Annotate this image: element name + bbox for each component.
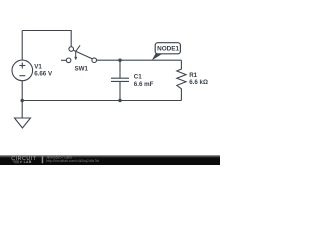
- svg-text:http://circuitlab.com/c4k2sq2u: http://circuitlab.com/c4k2sq2u5s7bt: [46, 159, 99, 163]
- svg-text:6.6 mF: 6.6 mF: [134, 81, 154, 88]
- wire: V1 top lead up left rail: [21, 31, 23, 61]
- SW1 actuator arrow: [76, 45, 80, 57]
- node junction top of C1: [118, 59, 121, 62]
- footer logo speed lines: [12, 161, 19, 163]
- svg-text:LAB: LAB: [24, 160, 32, 164]
- SW1 terminal top: [69, 47, 74, 52]
- svg-text:R1: R1: [189, 72, 197, 79]
- svg-text:NODE1: NODE1: [157, 46, 179, 53]
- resistor R1: [177, 60, 186, 100]
- wire: bottom rail: [22, 100, 181, 102]
- wire: top rail to switch: [22, 31, 71, 47]
- svg-text:6.6 kΩ: 6.6 kΩ: [189, 79, 208, 86]
- SW1 terminal common: [92, 58, 97, 63]
- svg-text:V1: V1: [34, 63, 42, 70]
- voltage source V1: [12, 60, 33, 81]
- node NODE1 callout: [152, 43, 181, 61]
- switch SW1: [61, 45, 96, 62]
- SW1 open stub: [61, 59, 66, 61]
- wire: V1 bottom lead to ground: [21, 81, 23, 118]
- svg-text:SW1: SW1: [75, 66, 89, 73]
- footer logo bolt: [20, 160, 23, 164]
- svg-text:C1: C1: [134, 74, 142, 81]
- capacitor C1: [111, 60, 129, 100]
- svg-text:6.66 V: 6.66 V: [34, 71, 53, 78]
- ground: [15, 118, 31, 128]
- SW1 lever: [73, 50, 92, 59]
- node junction bottom of C1: [118, 99, 121, 102]
- SW1 terminal left: [66, 58, 71, 63]
- node junction at ground tap: [21, 99, 24, 102]
- wire: switch common to resistor top: [97, 59, 182, 61]
- footer separator: [42, 156, 44, 163]
